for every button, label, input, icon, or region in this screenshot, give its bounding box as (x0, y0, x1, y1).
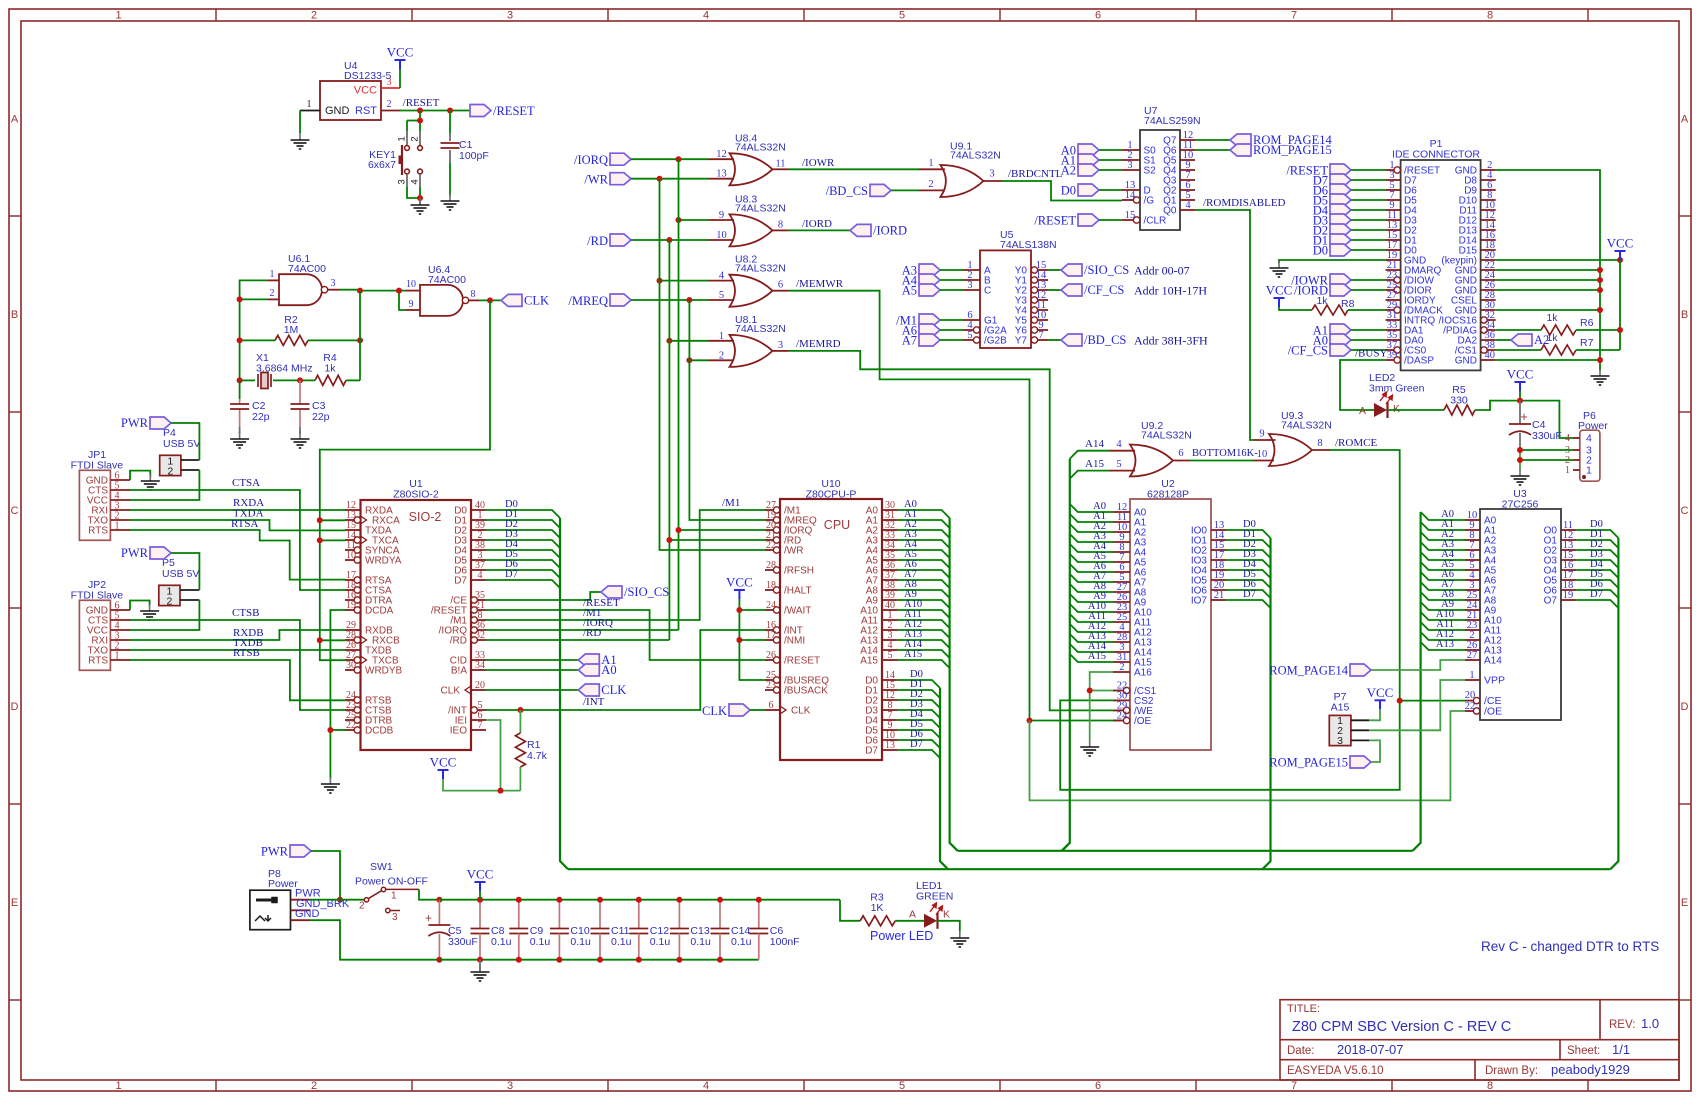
U1 pin 34 B!A (471, 669, 486, 671)
svg-text:2: 2 (410, 136, 421, 141)
P1 pin 33 DA1 (1386, 329, 1401, 331)
svg-text:VCC: VCC (1367, 685, 1394, 700)
U7 pin 13 D (1122, 189, 1140, 191)
svg-text:S2: S2 (1144, 166, 1157, 177)
wire U3 A8 from address bus (1421, 592, 1465, 600)
svg-text:20: 20 (475, 680, 485, 691)
U1 pin 18 CTSA (345, 589, 357, 591)
cap C12 plates (629, 929, 648, 934)
P1 pin 11 D3 (1386, 219, 1401, 221)
U5 pin 10 Y5 (1034, 319, 1048, 321)
svg-text:3.6864 MHz: 3.6864 MHz (256, 363, 313, 375)
wire P7 pin3 to ROM_PAGE15 (1369, 740, 1380, 762)
svg-text:4: 4 (719, 271, 725, 282)
net flag CLK oscillator (501, 294, 522, 306)
U1 pin 33 C!D (471, 659, 486, 661)
svg-text:22p: 22p (252, 411, 270, 423)
P1 pin 39 /DASP (1386, 359, 1398, 361)
cap C13 plates (670, 929, 689, 934)
wire C4 bottom to ground (1519, 446, 1521, 471)
wire P4 pin2 to JP1 VCC (130, 470, 199, 500)
U3 pin 10 A0 (1465, 519, 1480, 521)
svg-text:PWR: PWR (261, 845, 289, 859)
svg-text:3: 3 (397, 179, 408, 184)
svg-text:D7: D7 (910, 739, 923, 750)
junction IORQ U8.3 (676, 217, 682, 223)
U10 pin 35 A5 (882, 559, 897, 561)
U10 pin 40 A10 (882, 609, 897, 611)
junction RAM OE (1027, 718, 1033, 724)
P1 pin 4 D8 (1481, 179, 1496, 181)
junction C10 top (556, 897, 562, 903)
U2 pin 14 IO1 (1211, 539, 1226, 541)
svg-text:E: E (11, 897, 18, 909)
P1 pin 34 /PDIAG (1484, 329, 1496, 331)
P1 pin 35 DA0 (1386, 339, 1401, 341)
cap C14 plates (711, 929, 730, 934)
svg-text:1: 1 (928, 158, 933, 169)
svg-text:WRDYA: WRDYA (365, 556, 402, 567)
U2 pin 30 CS2 (1113, 699, 1130, 701)
P8 pin stubs and labels (291, 899, 311, 901)
svg-text:K: K (943, 909, 950, 921)
P1 pin 15 D1 (1386, 239, 1401, 241)
P1 pin 26 GND (1481, 289, 1496, 291)
wire U6.1 inputs left rail (240, 280, 268, 381)
JP2 pin 4 VCC (110, 629, 130, 631)
svg-text:IEO: IEO (450, 726, 467, 737)
wire U2 A6 from address bus (1070, 564, 1113, 572)
U8.3 output stub (773, 229, 789, 231)
junction C9 top (516, 897, 522, 903)
U4 pin 2 RST stub (381, 110, 400, 112)
U3 pin 8 A2 (1465, 539, 1480, 541)
P1 pin 5 D6 (1386, 189, 1401, 191)
svg-text:2018-07-07: 2018-07-07 (1337, 1042, 1404, 1057)
JP1 pin 4 VCC (110, 499, 130, 501)
svg-text:PWR: PWR (121, 416, 149, 430)
svg-text:27: 27 (1467, 650, 1478, 661)
wire /MREQ to U8.2 pin5 (631, 299, 709, 301)
ground U4 pin1 (291, 133, 310, 149)
cap C8 plates (471, 929, 490, 934)
svg-text:100nF: 100nF (770, 936, 800, 948)
ground symbol below cap rail (479, 960, 481, 971)
capacitor C1 leads (449, 111, 451, 134)
wire U1 D0 to data bus (486, 510, 560, 518)
wire U7 Q0 ROMDISABLED (1195, 210, 1253, 440)
wire SW1 to VCC rail (419, 889, 439, 899)
U10 pin 31 A1 (882, 519, 897, 521)
U3 pin 9 A1 (1465, 529, 1480, 531)
wire U1 IEI down (486, 720, 501, 791)
JP1 pin 5 CTS (110, 489, 130, 491)
frame column ticks and numbers (215, 9, 217, 21)
cap C11 plates (591, 929, 610, 934)
svg-text:B: B (1681, 309, 1688, 321)
svg-text:C: C (1681, 505, 1689, 517)
wire U1 CLK to CLK flag (486, 689, 578, 691)
svg-text:3: 3 (387, 77, 392, 88)
wire serial clock rail RXCA TXCA RXCB TXCB (320, 520, 345, 660)
U5 pin 2 B (963, 279, 980, 281)
capacitor C6 100nF (758, 900, 760, 929)
svg-text:26: 26 (766, 650, 776, 661)
wire ROMCE branch to U3 /CE (1400, 700, 1465, 702)
wire U8.1 pin1 from RD vertical (669, 340, 708, 342)
svg-text:GND: GND (295, 908, 320, 920)
wire U6.4 pin10 to pin9 feedback (399, 291, 406, 310)
wire R4 right to vertical (346, 379, 360, 381)
svg-text:/CF_CS: /CF_CS (1084, 283, 1124, 297)
flag /IOWR P1 (1330, 274, 1351, 286)
svg-text:3: 3 (778, 340, 783, 351)
resistor R2 1M (275, 335, 308, 345)
wire IOWR to P1 (1351, 279, 1386, 281)
wire U8.2 pin4 from WR vertical (660, 280, 709, 282)
svg-text:1: 1 (1469, 670, 1474, 681)
wire U2 A10 from address bus (1070, 604, 1113, 612)
U10 pin 3 A13 (882, 639, 897, 641)
svg-text:VPP: VPP (1484, 675, 1505, 687)
wire U2 IO3 to data bus (1226, 560, 1271, 568)
JP2 pin 5 CTS (110, 619, 130, 621)
svg-text:22: 22 (1465, 701, 1476, 712)
U2 pin 18 IO4 (1211, 569, 1226, 571)
U6.4 pin10 stub (406, 290, 420, 292)
wire R2 left (240, 339, 275, 341)
U2 pin 7 A5 (1113, 561, 1130, 563)
wire U2 A16 to ground rail (1090, 672, 1113, 740)
U6.4 pin8 output stub (469, 299, 480, 301)
svg-text:VCC: VCC (387, 45, 414, 60)
capacitor C2 (230, 404, 249, 409)
wire RTSA from JP1 RTS (130, 530, 345, 580)
ground P1 pin19 (1270, 261, 1289, 277)
U1 pin 4 D7 (471, 579, 486, 581)
U2 pin 12 A0 (1113, 511, 1130, 513)
svg-text:/CF_CS: /CF_CS (1288, 344, 1328, 358)
svg-text:/SIO_CS: /SIO_CS (1084, 263, 1129, 277)
U2 pin 22 /CS1 (1113, 690, 1127, 692)
wire A0 to U7 S0 (1099, 149, 1122, 151)
P1 pin 14 D13 (1481, 229, 1496, 231)
U5 pin 3 C (963, 289, 980, 291)
wire X1 left (240, 379, 255, 381)
svg-text:1: 1 (1565, 465, 1570, 476)
wire P1 /PDIAG to R6 (1496, 329, 1541, 331)
U2 pin 5 A7 (1113, 581, 1130, 583)
wire U10 D2 to data bus (897, 700, 940, 708)
svg-text:/BUSY: /BUSY (1355, 348, 1387, 360)
U5 pin 11 Y4 (1034, 309, 1048, 311)
junction GND24 (1597, 277, 1603, 283)
U9.3 input stubs (1253, 439, 1276, 441)
U10 pin 22 /WR (765, 549, 777, 551)
wire U1 D6 to data bus (486, 570, 560, 578)
wire U3 A5 from address bus (1421, 562, 1465, 570)
wire U10 A1 to address bus (897, 520, 950, 528)
svg-text:O7: O7 (1544, 596, 1558, 607)
svg-text:4: 4 (1586, 433, 1592, 445)
U10 pin 20 /IORQ (765, 529, 777, 531)
wire U10 A15 to address bus (897, 660, 950, 668)
svg-text:/RD: /RD (450, 636, 467, 647)
svg-text:/OE: /OE (1134, 716, 1152, 727)
JP1 pin 3 RXI (110, 509, 130, 511)
wire P1 GND24 (1496, 279, 1600, 281)
U3 pin 6 A4 (1465, 559, 1480, 561)
junction R1 top (517, 707, 523, 713)
svg-text:Z80CPU-P: Z80CPU-P (806, 489, 857, 501)
wire U3 A2 from address bus (1421, 532, 1465, 540)
P1 pin 27 IORDY (1386, 299, 1401, 301)
wire P1 GND26 (1496, 289, 1600, 291)
wire A6 to U5 G2A (940, 329, 963, 331)
cap C9 plates (509, 929, 528, 934)
net flag ROM_PAGE15 to P7 (1350, 756, 1371, 768)
svg-text:SW1: SW1 (370, 861, 393, 873)
wire A1 to P1 DA1 (1351, 329, 1386, 331)
wire U3 A12 from address bus (1421, 632, 1465, 640)
U1 pin 2 D3 (471, 539, 486, 541)
svg-text:CTSA: CTSA (232, 477, 260, 489)
svg-text:8: 8 (1487, 1080, 1493, 1092)
svg-text:C: C (984, 286, 991, 297)
resistor R8 1k (1312, 305, 1348, 315)
ROM data bus vertical (1610, 538, 1618, 869)
svg-text:+: + (1520, 409, 1528, 424)
flag A0 P1 (1330, 334, 1351, 346)
svg-text:2: 2 (167, 466, 173, 478)
connector P8 Power body (250, 890, 291, 930)
wire A1 to U7 S1 (1099, 159, 1122, 161)
wire DCDA to DCDB ground rail (330, 610, 345, 779)
P1 pin 21 DMARQ (1386, 269, 1401, 271)
junction WR U8.2 (657, 278, 663, 284)
svg-text:9: 9 (409, 299, 414, 310)
RAM data bus vertical (1263, 538, 1271, 869)
wire U10 A5 to address bus (897, 560, 950, 568)
U1 pin 10 WRDYA (345, 559, 357, 561)
wire D3 flag to P1 (1351, 219, 1386, 221)
led LED1 (924, 914, 937, 928)
junction C12 top (636, 897, 642, 903)
P7 pin stubs (1351, 719, 1369, 721)
svg-text:30: 30 (346, 660, 356, 671)
U1 pin 7 IEO (471, 729, 486, 731)
flag A7 (919, 334, 940, 346)
net flag A1 at U1 (578, 654, 599, 666)
P4 pin2 stub (181, 469, 200, 471)
wire /RD to U8.3 pin10 (631, 239, 709, 241)
P1 pin 36 DA2 (1481, 339, 1496, 341)
U2 pin 15 IO2 (1211, 549, 1226, 551)
P6 pin1 marker dot (1582, 475, 1586, 479)
svg-text:2: 2 (387, 99, 392, 110)
junction VCC C4 (1517, 398, 1523, 404)
U5 pin 6 G1 (963, 319, 980, 321)
U2 pin 3 A14 (1113, 651, 1130, 653)
svg-text:6: 6 (1095, 1080, 1101, 1092)
nand U6.1 body (279, 274, 322, 305)
svg-text:CLK: CLK (441, 686, 461, 697)
IC U7 74ALS259N body (1140, 130, 1180, 230)
svg-text:/RESET: /RESET (784, 656, 820, 667)
svg-text:/IORD: /IORD (873, 223, 907, 237)
svg-text:/RD: /RD (587, 234, 608, 248)
svg-text:Power: Power (1578, 420, 1608, 432)
resistor R1 (515, 733, 525, 767)
svg-text:ROM_PAGE15: ROM_PAGE15 (1269, 756, 1348, 770)
net flag /SIO_CS at U1 (601, 586, 622, 598)
wire U2 IO2 to data bus (1226, 550, 1271, 558)
wire U8.1 pin2 from MREQ vertical (689, 359, 708, 361)
P1 pin 12 D12 (1481, 219, 1496, 221)
led LED2 (1374, 403, 1387, 417)
wire U3 A7 from address bus (1421, 582, 1465, 590)
wire BOTTOM16K U9.2 out to U9.3 (1190, 460, 1253, 462)
flag A2 U7 (1078, 164, 1099, 176)
IC U1 Z80SIO-2 body (361, 500, 472, 750)
svg-text:/IORQ: /IORQ (574, 153, 608, 167)
flag PWR P5 (150, 547, 171, 559)
junction KEY1 top (417, 118, 423, 124)
flag /RESET P1 (1330, 164, 1351, 176)
junction C14 bottom (717, 957, 723, 963)
polarized cap C4 (1509, 424, 1531, 435)
net flag /SIO_CS out (1061, 264, 1082, 276)
wire U2 IO7 to data bus (1226, 600, 1271, 608)
svg-text:0.1u: 0.1u (690, 936, 711, 948)
wire VCC to P7 pin1 (1369, 709, 1380, 720)
ground U2 CS1 A16 (1080, 740, 1099, 756)
ground C4 (1511, 469, 1530, 485)
U2 pin 21 IO7 (1211, 599, 1226, 601)
wire RESET to U7 CLR (1099, 219, 1122, 221)
junction RD U8.1 (666, 338, 672, 344)
wire U2 A15 from address bus (1070, 654, 1113, 662)
U2 pin 31 A15 (1113, 661, 1130, 663)
junction MREQ U8.1 (686, 357, 692, 363)
U10 pin 32 A2 (882, 529, 897, 531)
U2 pin 17 IO3 (1211, 559, 1226, 561)
svg-text:/G: /G (1144, 196, 1155, 207)
U3 pin 16 O4 (1561, 569, 1576, 571)
svg-text:3: 3 (392, 912, 398, 923)
U1 pin 20 CLK (471, 689, 486, 691)
wire U3 O3 to data bus (1576, 560, 1618, 568)
wire RTSB from JP2 RTS (130, 660, 345, 700)
U1 pin 37 D6 (471, 569, 486, 571)
P1 pin 38 /CS1 (1484, 349, 1496, 351)
U5 pin 9 Y6 (1034, 329, 1048, 331)
svg-text:IO7: IO7 (1191, 596, 1208, 607)
svg-text:Sheet:: Sheet: (1567, 1045, 1600, 1057)
wire /MEMWR route to RAM WE (789, 291, 1030, 721)
wire U2 A9 from address bus (1070, 594, 1113, 602)
resistor R6 1k (1541, 325, 1576, 335)
JP2 pin 2 TXO (110, 649, 130, 651)
svg-text:Addr 10H-17H: Addr 10H-17H (1134, 284, 1207, 298)
junction GND22 (1597, 267, 1603, 273)
svg-text:+: + (425, 911, 432, 925)
svg-text:74ALS32N: 74ALS32N (1141, 430, 1192, 442)
capacitor C10 0.1u (558, 900, 560, 929)
wire U2 A5 from address bus (1070, 554, 1113, 562)
ground P1 right rail (1591, 369, 1610, 385)
U3 pin 20 /CE (1465, 700, 1477, 702)
cap C6 plates (749, 929, 768, 934)
svg-text:7: 7 (478, 720, 483, 731)
U1 pin 26 TXDB (345, 649, 361, 651)
svg-text:22p: 22p (312, 411, 330, 423)
P6 pin 2 (1573, 459, 1580, 461)
wire U3 A11 from address bus (1421, 622, 1465, 630)
wire U10 D5 to data bus (897, 730, 940, 738)
junction GND40 (1597, 357, 1603, 363)
wire KEY1 bottom to ground (407, 187, 420, 198)
junction C12 bottom (636, 957, 642, 963)
svg-text:A: A (11, 114, 19, 126)
wire P5 pin2 to JP2 VCC (130, 600, 199, 630)
KEY1 top pin leads (406, 131, 408, 145)
svg-text:/WR: /WR (784, 546, 803, 557)
flag /RD (610, 234, 631, 246)
junction C11 top (597, 897, 603, 903)
U2 pin 29 /WE (1113, 709, 1127, 711)
wire U10 A4 to address bus (897, 550, 950, 558)
U2 pin 2 A16 (1113, 671, 1130, 673)
P1 pin 17 D0 (1386, 249, 1401, 251)
svg-text:27C256: 27C256 (1502, 499, 1539, 511)
U2 pin 24 /OE (1113, 720, 1127, 722)
wire U1 C!D to A1 flag (486, 659, 578, 661)
svg-text:1: 1 (307, 99, 312, 110)
U10 pin 28 /RFSH (765, 569, 777, 571)
U10 pin 6 CLK (765, 709, 780, 711)
flag /WR (610, 173, 631, 185)
U2 pin 4 A12 (1113, 631, 1130, 633)
svg-text:1: 1 (270, 269, 275, 280)
wire U3 A6 from address bus (1421, 572, 1465, 580)
junction pin2 rail (237, 296, 243, 302)
wire VCC to NMI (739, 639, 765, 641)
svg-text:74ALS32N: 74ALS32N (735, 263, 786, 275)
svg-text:7: 7 (1291, 1080, 1297, 1092)
wire U5 Y2 to CF_CS flag (1048, 289, 1061, 291)
svg-text:22: 22 (346, 720, 356, 731)
wire U8.3 pin9 from IORQ vertical (679, 219, 709, 221)
U1 pin 25 DTRB (345, 719, 357, 721)
wire PWR flag to P4 pin1 (171, 423, 199, 460)
U7 pin 14 /G (1122, 199, 1137, 201)
JP2 pin 1 RTS (110, 659, 130, 661)
wire P1 DA2 to A2 flag (1496, 339, 1511, 341)
U8.2 input stubs (709, 280, 735, 282)
wire D1 flag to P1 (1351, 239, 1386, 241)
svg-text:ROM_PAGE14: ROM_PAGE14 (1269, 664, 1348, 678)
wire A4 to U5 B (940, 279, 963, 281)
wire U3 O7 to data bus (1576, 600, 1618, 608)
pushbutton KEY1 body (405, 146, 423, 174)
U1 pin 6 IEI (471, 719, 486, 721)
junction WR vertical top (657, 176, 663, 182)
svg-text:SIO-2: SIO-2 (409, 510, 442, 524)
svg-text:/RD: /RD (583, 627, 601, 639)
wire U3 O4 to data bus (1576, 570, 1618, 578)
junction clk TXCA (317, 537, 323, 543)
